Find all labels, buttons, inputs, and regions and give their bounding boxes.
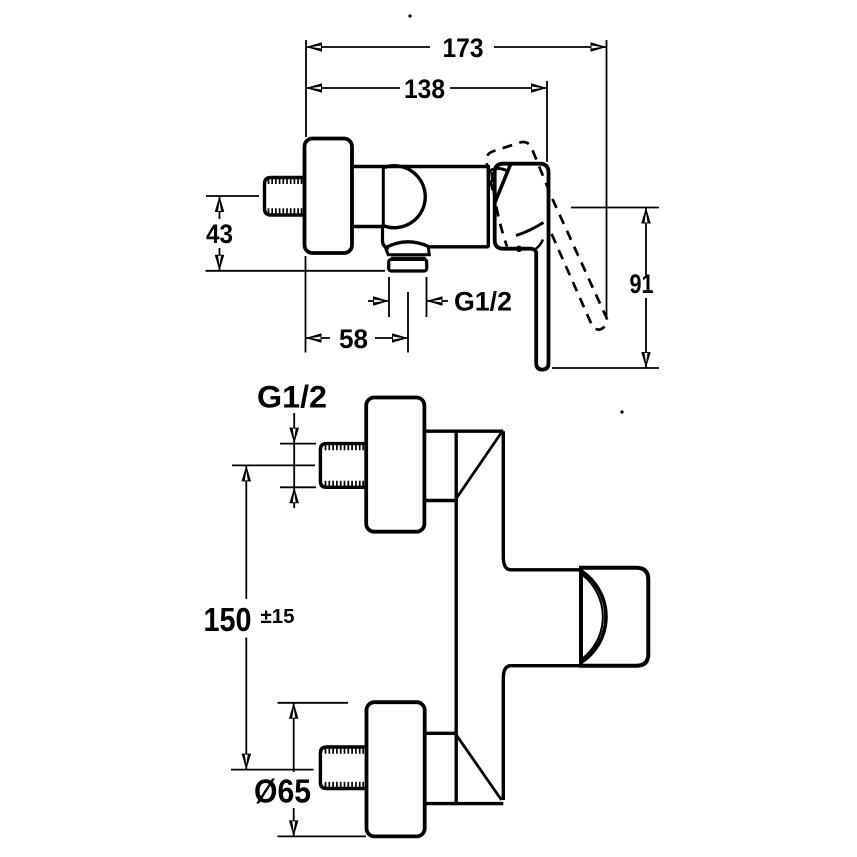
- dimension line 43: [219, 196, 221, 271]
- tick thread bottom: [280, 486, 316, 488]
- outlet G1/2 stub (side view): [389, 259, 427, 271]
- handle cap and lever bar outline (side view): [495, 164, 549, 370]
- SIDE-VIEW-GROUP: [265, 14, 608, 369]
- speck right: [620, 410, 623, 413]
- arrow dia65 up: [289, 703, 299, 719]
- dimension line 58: [306, 337, 409, 339]
- dimension line thread length: [293, 413, 295, 508]
- svg-text:58: 58: [339, 324, 368, 354]
- lower inlet nipple (front view): [320, 747, 366, 789]
- svg-text:91: 91: [630, 269, 654, 299]
- thread hatching top (side nipple): [269, 179, 302, 185]
- arrow thread up: [289, 487, 299, 503]
- upper inlet nipple (front view): [320, 444, 366, 488]
- reference line nipple axis (43 top): [206, 195, 259, 197]
- valve dome transition arc (side view): [487, 168, 509, 172]
- SIDE-DIMS-GROUP: [206, 33, 660, 368]
- thread hatching top (lower nipple): [326, 748, 364, 754]
- arrow 43 up: [215, 196, 225, 212]
- wall flange (side view): [305, 139, 353, 254]
- tick dia65 bottom: [278, 835, 367, 837]
- arrow 138 left: [306, 83, 322, 93]
- extension line left (wall plane): [305, 40, 308, 353]
- thread hatching bottom (lower nipple): [326, 782, 364, 788]
- hub arm bottom and column right edge lower (front view): [503, 666, 581, 800]
- arrow G1/2 left: [373, 296, 389, 306]
- inlet nipple (side view): [265, 178, 306, 216]
- arrow 173 left: [306, 42, 322, 52]
- lower wall flange (front view): [367, 702, 425, 836]
- svg-text:±15: ±15: [261, 606, 295, 628]
- arrow 150 down: [242, 754, 252, 770]
- lever grip edge (side view): [495, 165, 511, 204]
- upper transition diagonal (front view): [456, 432, 502, 499]
- extension line outlet axis / 58 right: [407, 292, 409, 353]
- svg-text:Ø65: Ø65: [254, 773, 311, 810]
- upper wall flange (front view): [366, 398, 424, 532]
- arrow 138 right: [531, 83, 547, 93]
- dimension line dia65: [293, 703, 295, 837]
- upper neck and column top edge (front view): [424, 430, 503, 433]
- neck bottom edge (side view): [352, 225, 383, 228]
- reference line upper nipple axis (150 top): [232, 464, 315, 466]
- body right end (side view): [487, 165, 490, 248]
- cartridge dome arc (side view): [384, 166, 425, 228]
- arrow 91 up: [641, 208, 651, 224]
- lever underside curve (side view): [516, 223, 544, 236]
- outlet collar (side view): [386, 247, 430, 255]
- raised handle phantom head bottom (dashed): [492, 172, 508, 247]
- arrow G1/2 right: [427, 296, 443, 306]
- extension line 173 right (handle tip raised): [606, 40, 608, 318]
- thread hatching bottom (side nipple): [269, 208, 302, 214]
- lever-bar junction curve (side view): [534, 240, 543, 251]
- FRONT-DIMS-GROUP: [204, 379, 367, 837]
- hub dome inner arc (front view): [583, 575, 603, 659]
- arrow 58 right: [392, 333, 408, 343]
- upper neck bottom edge (front view): [424, 499, 456, 502]
- speck top: [408, 14, 411, 17]
- thread hatching top (upper nipple): [326, 445, 364, 451]
- reference line handle pivot (91 top): [571, 207, 659, 209]
- arrow 173 right: [591, 42, 607, 52]
- reference line outlet base (43 bottom): [206, 270, 386, 272]
- arrow thread down: [289, 428, 299, 444]
- svg-text:G1/2: G1/2: [454, 287, 512, 317]
- reference line lever tip (91 bottom): [552, 367, 659, 369]
- thread hatching bottom (upper nipple): [326, 481, 364, 487]
- outlet inset band (side view): [391, 257, 426, 259]
- svg-text:150: 150: [204, 601, 252, 638]
- tick dia65 top: [278, 702, 349, 704]
- handle hub (front view): [581, 568, 648, 666]
- arrow dia65 down: [289, 820, 299, 836]
- raised handle phantom outline (dashed): [486, 142, 607, 330]
- extension lines G1/2 outlet: [389, 277, 427, 317]
- column right edge upper and hub arm top (front view): [503, 431, 581, 570]
- extension line 138 right (cap face): [546, 81, 548, 162]
- svg-text:43: 43: [206, 219, 233, 249]
- svg-text:138: 138: [404, 74, 445, 104]
- tick thread top: [280, 443, 316, 445]
- body left drop to outlet (side view): [383, 227, 390, 249]
- svg-text:G1/2: G1/2: [257, 379, 327, 415]
- hub dome arc (front view): [582, 572, 606, 662]
- arrow 58 left: [306, 333, 322, 343]
- arrow 150 up: [242, 465, 252, 481]
- cartridge dome chord (side view): [382, 167, 385, 227]
- pivot dot (side view): [516, 246, 522, 252]
- FRONT-VIEW-GROUP: [320, 398, 648, 837]
- dimension line 150: [245, 465, 247, 769]
- body column left edge (front view): [455, 431, 458, 803]
- dimension line 173: [306, 46, 607, 48]
- outlet dome (side view): [385, 242, 429, 248]
- body bottom edge (side view): [428, 245, 489, 248]
- arrow 91 down: [641, 352, 651, 368]
- column bottom edge and lower neck bottom (front view): [425, 802, 503, 805]
- dimension line 138: [306, 87, 547, 89]
- reference line lower nipple axis (150 bottom): [231, 769, 314, 771]
- lower neck top edge (front view): [425, 732, 456, 735]
- dimension line G1/2: [368, 300, 448, 302]
- dimension line 91: [645, 208, 647, 369]
- arrow 43 down: [215, 255, 225, 271]
- lower transition diagonal (front view): [456, 735, 501, 800]
- body top edge (side view): [352, 165, 489, 168]
- svg-text:173: 173: [443, 33, 484, 63]
